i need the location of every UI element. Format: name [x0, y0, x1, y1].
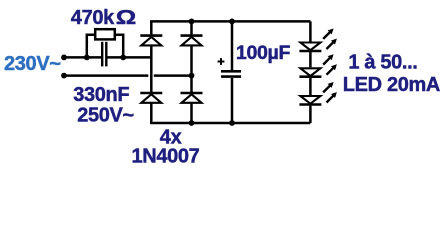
- arrow: D6 emission arrow upper: [323, 54, 333, 64]
- node: junction bottom rail / bridge right column: [189, 120, 195, 126]
- LED D6 (middle of string): [299, 68, 321, 76]
- svg-text:1N4007: 1N4007: [132, 145, 200, 167]
- capacitor C1 330nF right plate: [105, 42, 107, 67]
- wire: from C1 right plate to bridge left column: [107, 56, 151, 59]
- arrow: D7 emission arrow upper: [323, 82, 333, 92]
- arrow: D5 emission arrow lower: [327, 39, 337, 49]
- svg-text:Ω: Ω: [116, 6, 136, 29]
- svg-text:330nF: 330nF: [73, 84, 129, 106]
- diode D4 (bridge bottom-right, 1N4007): [181, 93, 203, 103]
- wire: bottom input wire left part (up to crossover gap): [64, 74, 148, 77]
- LED D7 (bottom of string): [299, 96, 321, 105]
- diode D2 (bridge top-right, 1N4007): [181, 36, 203, 46]
- node: junction bottom wire / bridge right column midpoint: [189, 73, 195, 79]
- wire: top input wire from terminal to C1 left plate: [64, 56, 101, 59]
- diode D3 (bridge bottom-left, 1N4007): [140, 93, 162, 103]
- node: junction top rail / C2: [229, 19, 235, 25]
- node: junction of R right lead on top wire: [120, 55, 126, 61]
- node: junction of R left lead on top wire: [84, 55, 90, 61]
- svg-text:1 à 50...: 1 à 50...: [348, 52, 417, 74]
- node: neutral input terminal (bottom): [61, 73, 67, 79]
- svg-text:250V~: 250V~: [77, 105, 134, 127]
- capacitor C2 100uF top plate: [221, 70, 241, 73]
- wire: C2 top lead: [231, 21, 234, 70]
- wire: bridge left column segments: [150, 21, 153, 35]
- svg-text:470k: 470k: [71, 7, 115, 29]
- LED D5 (top of string): [299, 43, 321, 52]
- arrow: D5 emission arrow upper: [323, 29, 333, 39]
- wire: C2 bottom lead: [231, 78, 234, 123]
- node: live input terminal (top): [61, 55, 67, 61]
- svg-text:100µF: 100µF: [236, 42, 291, 64]
- polarity plus sign of C2: [218, 58, 225, 65]
- wire: LED string column segments: [309, 21, 312, 41]
- resistor R1 470k body: [95, 29, 115, 39]
- arrow: D7 emission arrow lower: [327, 92, 337, 102]
- svg-text:LED 20mA: LED 20mA: [343, 74, 440, 96]
- wire: bridge right column segments: [190, 21, 193, 35]
- capacitor C2 100uF bottom plate: [221, 75, 241, 78]
- wire: bottom input wire right part to bridge right column: [154, 74, 192, 77]
- wire: bottom DC rail: [150, 122, 310, 125]
- wire: R1 left lead: [87, 35, 94, 58]
- node: junction top rail / bridge right column: [189, 19, 195, 25]
- wire: top DC rail: [150, 20, 310, 23]
- svg-text:230V~: 230V~: [4, 53, 61, 75]
- wire: R1 right lead: [116, 35, 123, 58]
- diode D1 (bridge top-left, 1N4007): [140, 36, 162, 46]
- node: junction bottom rail / C2: [229, 120, 235, 126]
- capacitor C1 330nF left plate: [101, 42, 103, 67]
- arrow: D6 emission arrow lower: [327, 64, 337, 74]
